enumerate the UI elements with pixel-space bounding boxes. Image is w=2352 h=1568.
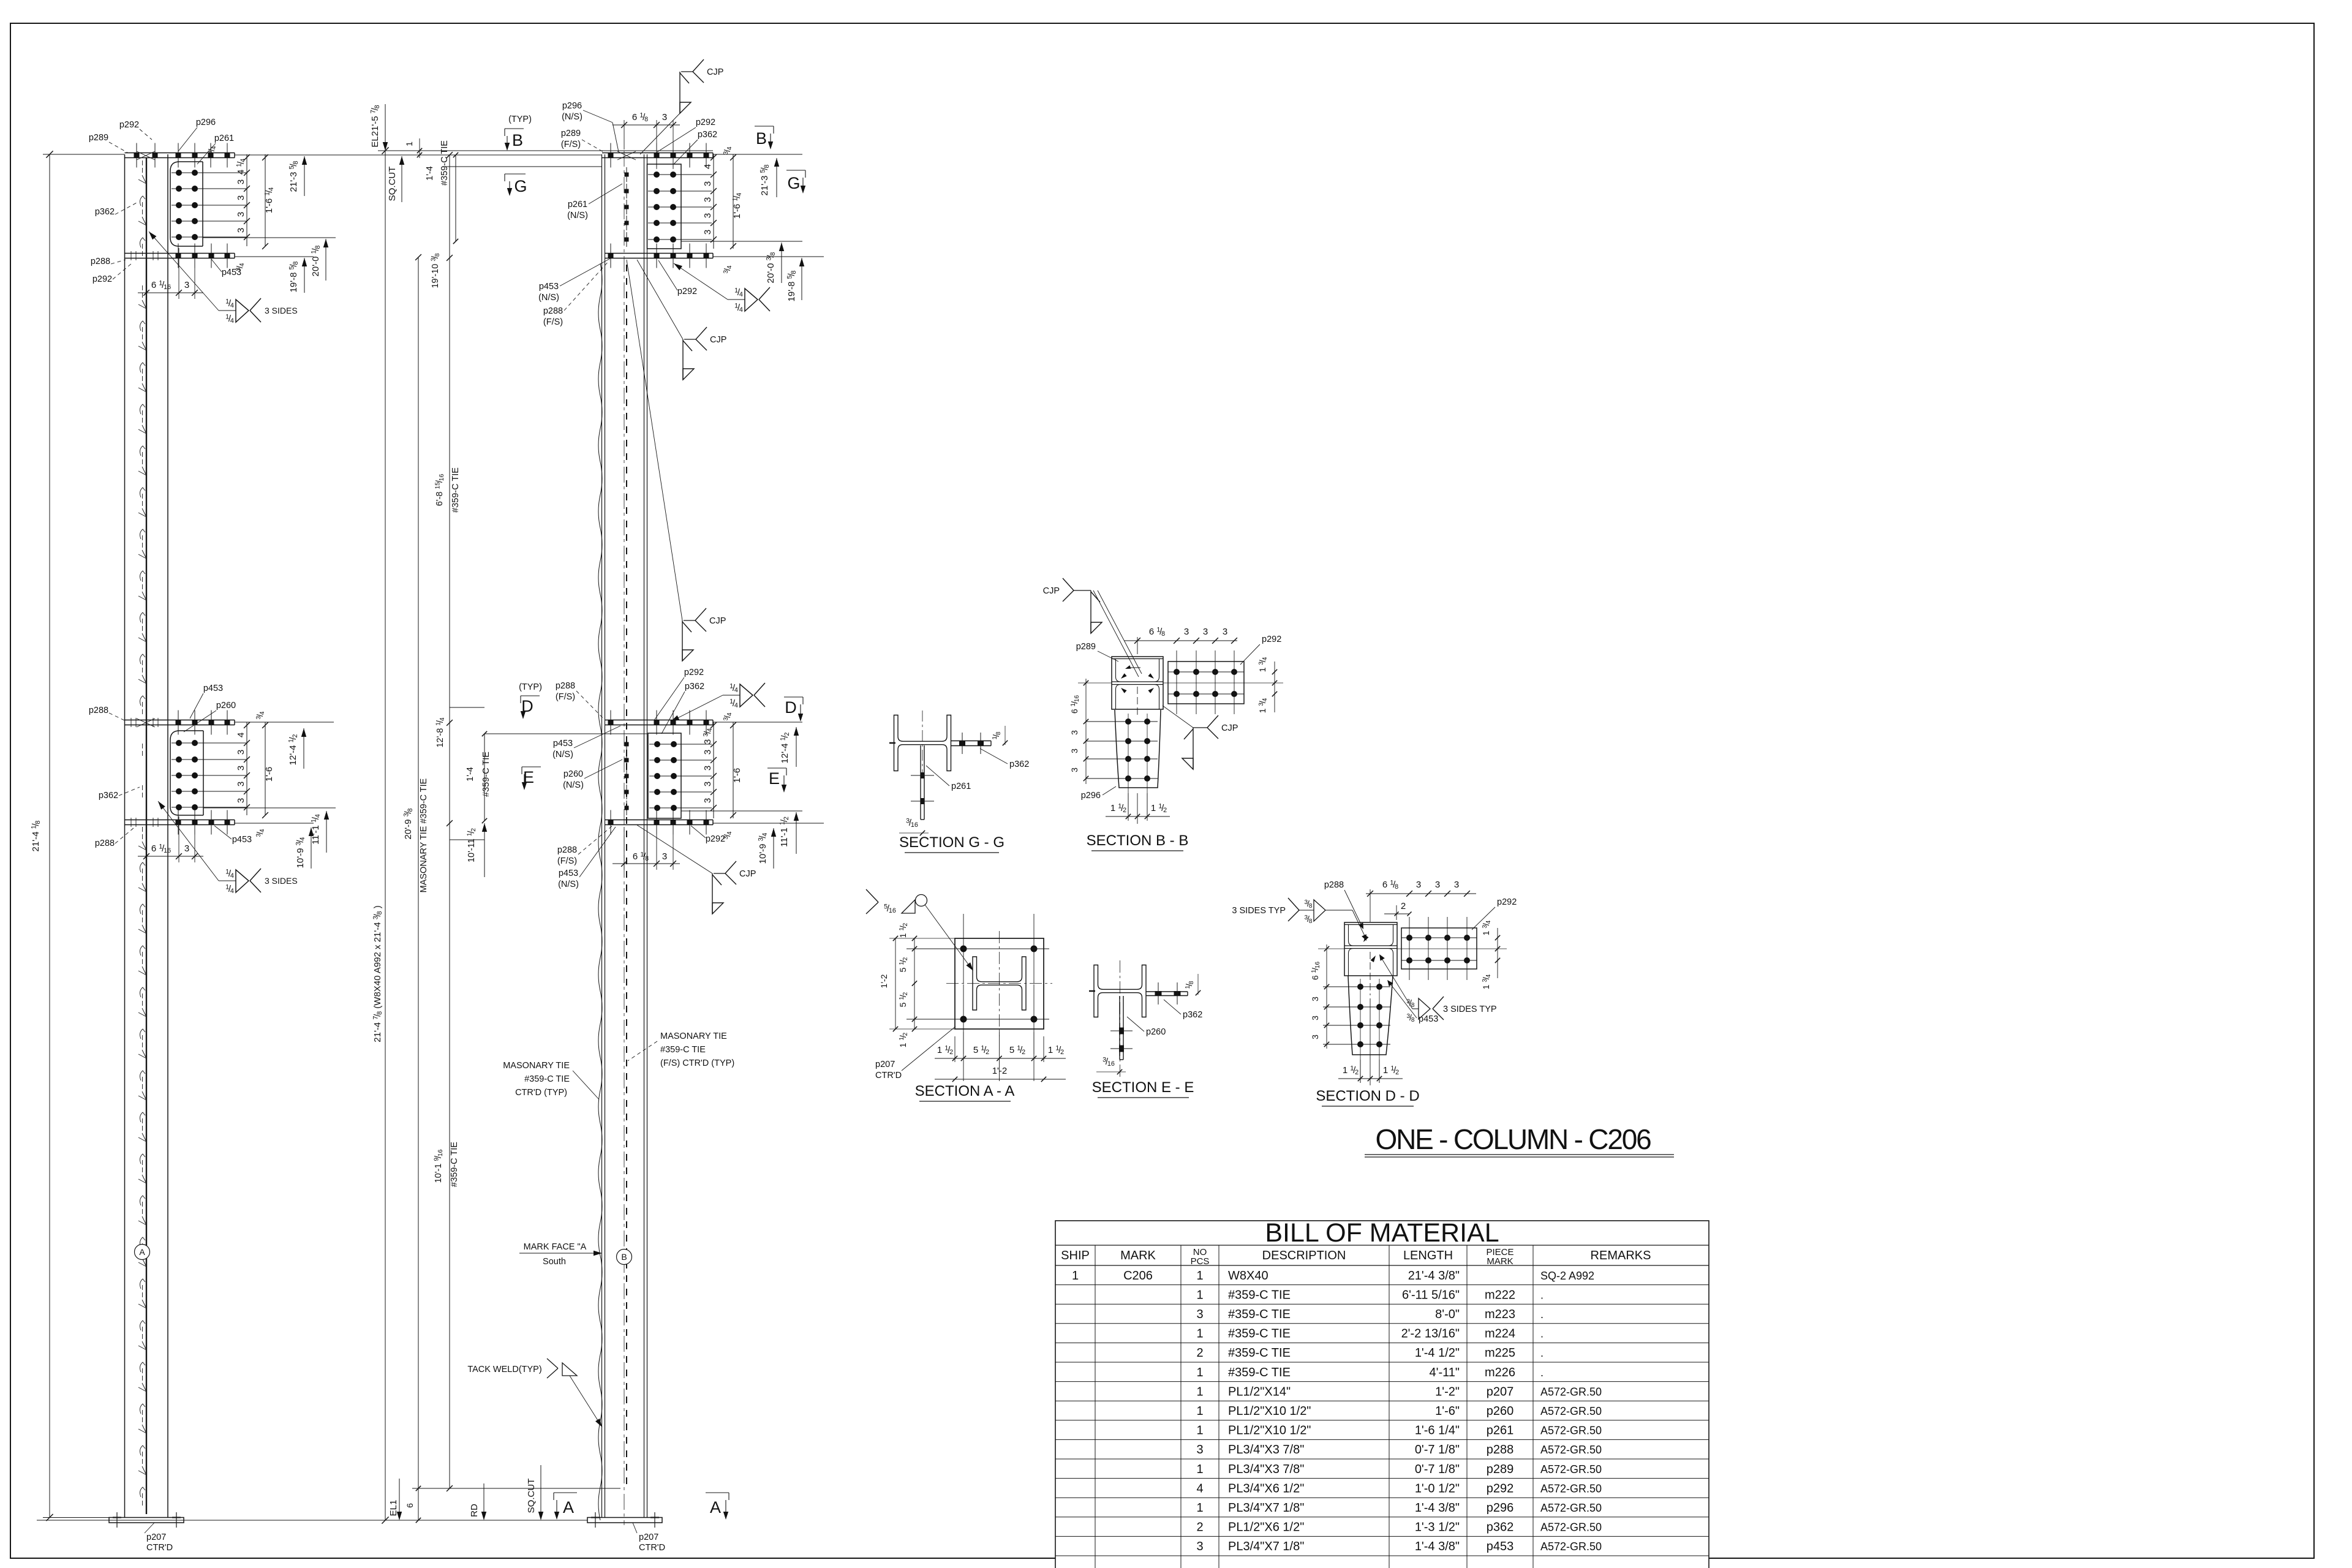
CJP callout below top conn (col B) [637, 260, 683, 339]
column A tie marks [138, 175, 146, 184]
svg-text:1'-6: 1'-6 [264, 767, 274, 782]
column A mid upper strip [125, 720, 235, 721]
svg-text:0'-7 1/8": 0'-7 1/8" [1415, 1463, 1460, 1476]
svg-text:3: 3 [236, 195, 246, 200]
svg-text:CJP: CJP [707, 67, 723, 77]
plate p260 stem (E-E) [1119, 996, 1120, 1060]
svg-text:m223: m223 [1485, 1308, 1515, 1321]
svg-text:#359-C TIE: #359-C TIE [481, 752, 491, 797]
svg-text:B: B [756, 129, 767, 148]
svg-text:12'-4 1/2: 12'-4 1/2 [780, 733, 791, 764]
tie p453 tapered (D-D) [1348, 976, 1393, 1055]
svg-text:1: 1 [1196, 1385, 1203, 1398]
sq cut line bottom [412, 1488, 620, 1489]
svg-text:2: 2 [1196, 1346, 1203, 1360]
svg-text:SECTION D - D: SECTION D - D [1316, 1088, 1419, 1104]
col B dim 21-3 5/8 [776, 158, 777, 197]
top of steel line EL21-5 7/8 [378, 150, 713, 151]
svg-text:#359-C TIE: #359-C TIE [1228, 1327, 1291, 1341]
svg-text:3 SIDES TYP: 3 SIDES TYP [1232, 906, 1286, 916]
column B lower flange strip (top conn) [605, 253, 713, 254]
dim 11-1 1/4 [326, 811, 327, 853]
svg-text:1: 1 [1196, 1404, 1203, 1418]
svg-text:1: 1 [1196, 1269, 1203, 1283]
EL1 label [399, 1479, 400, 1519]
svg-text:1'-2: 1'-2 [992, 1066, 1008, 1076]
svg-text:#359-C TIE: #359-C TIE [440, 140, 450, 186]
top connection bolt-row dim chain [246, 154, 247, 246]
section mark B right [755, 126, 774, 127]
svg-text:8'-0": 8'-0" [1435, 1308, 1460, 1321]
col B dim 1-6 1/4 [733, 154, 734, 249]
svg-text:PL3/4"X7 1/8": PL3/4"X7 1/8" [1228, 1540, 1304, 1553]
col B dim 11-1 1/2 [796, 812, 797, 854]
CJP callout col B mid-upper [627, 260, 682, 620]
section A-A bottom dims [963, 1032, 964, 1081]
svg-text:A572-GR.50: A572-GR.50 [1540, 1385, 1602, 1398]
svg-text:A572-GR.50: A572-GR.50 [1540, 1425, 1602, 1437]
weld leader (col A top conn) [149, 232, 219, 311]
col B mid ext lines [713, 722, 802, 723]
weld symbol col B top conn [674, 263, 728, 300]
p260 bolts [171, 742, 247, 744]
column A mid lower strip [125, 820, 235, 821]
svg-text:1: 1 [1196, 1288, 1203, 1302]
tie dim 10-11 1/2 (col B) [484, 823, 485, 877]
p292 bolts (D-D) [1406, 935, 1412, 941]
svg-text:p288: p288 [89, 706, 108, 715]
svg-text:19'-10 3/8: 19'-10 3/8 [431, 253, 441, 288]
svg-text:3 SIDES TYP: 3 SIDES TYP [1443, 1005, 1497, 1014]
svg-text:p207: p207 [1487, 1385, 1514, 1398]
svg-text:CJP: CJP [739, 869, 756, 879]
col B tie dim line [449, 155, 450, 1488]
svg-text:3: 3 [703, 750, 713, 755]
svg-text:SECTION E - E: SECTION E - E [1092, 1079, 1194, 1096]
col B dim 12-4 1/2 [796, 727, 797, 767]
column A cap plate strip [125, 153, 235, 154]
svg-text:D: D [785, 698, 797, 717]
svg-text:p288: p288 [95, 839, 115, 848]
bottom dims B-B [1128, 793, 1129, 821]
svg-text:3: 3 [236, 212, 246, 217]
plate p362 (section G-G) [951, 741, 991, 742]
svg-text:p207: p207 [146, 1532, 166, 1542]
svg-text:DESCRIPTION: DESCRIPTION [1262, 1249, 1346, 1262]
svg-text:19'-8 5/8: 19'-8 5/8 [288, 262, 300, 293]
svg-text:p289: p289 [561, 129, 581, 138]
bill of material table [1055, 1221, 1709, 1568]
col B dim 20-0 3/8 [781, 243, 782, 283]
dims 1 3/4 (D-D) [1497, 928, 1498, 978]
dim 6 1/8 and 3 above p362 [624, 120, 625, 149]
left dim chain (D-D) [1326, 944, 1327, 1049]
svg-text:3: 3 [703, 798, 713, 803]
svg-text:MASONARY TIE: MASONARY TIE [503, 1061, 570, 1071]
svg-text:4: 4 [1196, 1482, 1203, 1495]
svg-text:(N/S): (N/S) [552, 750, 573, 759]
dim 21-3 5/8 (col A) [304, 156, 305, 196]
svg-text:4: 4 [236, 733, 246, 737]
svg-text:CTR'D: CTR'D [639, 1543, 665, 1553]
svg-text:p288: p288 [1487, 1443, 1514, 1457]
svg-text:PL1/2"X10 1/2": PL1/2"X10 1/2" [1228, 1424, 1311, 1438]
CJP callout col B mid-lower [637, 825, 712, 873]
svg-text:3: 3 [1454, 880, 1459, 890]
svg-text:3 SIDES: 3 SIDES [265, 876, 298, 886]
svg-text:20'-0 3/8: 20'-0 3/8 [766, 252, 777, 284]
column B centerline [624, 151, 625, 1525]
svg-text:A572-GR.50: A572-GR.50 [1540, 1463, 1602, 1476]
svg-text:1'-4 3/8": 1'-4 3/8" [1415, 1540, 1460, 1553]
svg-text:3: 3 [236, 228, 246, 233]
svg-text:21'-4 7/8 (W8X40 A992 x 21'-4: 21'-4 7/8 (W8X40 A992 x 21'-4 3/8 ) [372, 905, 384, 1042]
svg-text:A572-GR.50: A572-GR.50 [1540, 1444, 1602, 1456]
svg-text:3: 3 [703, 230, 713, 235]
col B dim line 20-9 3/8 [418, 257, 419, 1520]
column B mid lower strip [605, 820, 713, 821]
p453 strip left hidden dashes [130, 251, 132, 260]
svg-text:#359-C TIE: #359-C TIE [451, 467, 461, 513]
dim 19-8 5/8 (col A) [304, 258, 305, 293]
section mark G left [505, 173, 526, 175]
svg-text:.: . [1540, 1328, 1543, 1340]
svg-text:p453: p453 [232, 835, 252, 845]
column A mark circle A [135, 1245, 150, 1260]
svg-text:3: 3 [1310, 1035, 1320, 1039]
svg-text:1: 1 [1196, 1327, 1203, 1341]
svg-text:MARK FACE "A: MARK FACE "A [524, 1242, 587, 1252]
svg-text:p292: p292 [119, 120, 139, 130]
svg-text:.: . [1540, 1366, 1543, 1379]
svg-text:p296: p296 [1487, 1501, 1514, 1515]
svg-text:C206: C206 [1123, 1269, 1153, 1283]
svg-text:3: 3 [1196, 1308, 1203, 1321]
svg-text:4: 4 [703, 164, 713, 169]
weld leader (col A mid) [158, 801, 219, 881]
svg-text:21'-4 3/8": 21'-4 3/8" [1408, 1269, 1460, 1283]
section B-B column stub [1112, 657, 1163, 709]
svg-text:A572-GR.50: A572-GR.50 [1540, 1482, 1602, 1494]
svg-text:0'-7 1/8": 0'-7 1/8" [1415, 1443, 1460, 1457]
section E-E beam [1094, 965, 1146, 1017]
svg-text:p453: p453 [222, 268, 241, 277]
mid overall dim 1-6 [265, 722, 266, 815]
plate p362 (col B mid) [648, 733, 681, 818]
svg-text:p362: p362 [99, 791, 118, 801]
svg-text:.: . [1540, 1289, 1543, 1301]
dim 6 1/16 and 3 (col A top conn) [146, 260, 147, 299]
svg-text:1: 1 [1196, 1424, 1203, 1438]
col B dim 10-9 3/4 [773, 828, 774, 869]
EL21-5 7/8 label [385, 104, 386, 149]
column A right flange line [167, 154, 168, 1518]
svg-text:3: 3 [662, 112, 667, 123]
svg-text:p362: p362 [95, 207, 115, 217]
ext lines (col A top) [235, 154, 602, 156]
svg-text:CTR'D: CTR'D [146, 1543, 173, 1553]
svg-text:B: B [621, 1252, 627, 1262]
p362 bolts (top) [648, 174, 712, 175]
svg-text:m226: m226 [1485, 1366, 1515, 1379]
svg-text:PL1/2"X10 1/2": PL1/2"X10 1/2" [1228, 1404, 1311, 1418]
svg-text:1: 1 [404, 141, 414, 146]
svg-text:2: 2 [1196, 1521, 1203, 1534]
dim 12-4 1/2 [303, 728, 304, 769]
svg-text:p288: p288 [1324, 880, 1344, 890]
svg-text:MARK: MARK [1120, 1249, 1156, 1262]
p453 strip bolts [176, 253, 181, 258]
section G-G beam [894, 715, 951, 771]
cap strip bolts [134, 153, 140, 158]
svg-text:p362: p362 [1487, 1521, 1514, 1534]
svg-text:3: 3 [1416, 880, 1421, 890]
svg-text:.: . [1540, 1308, 1543, 1321]
svg-text:MARK: MARK [1487, 1256, 1513, 1267]
p362 mid bolts [649, 744, 712, 745]
svg-text:p292: p292 [677, 287, 697, 296]
svg-text:(TYP): (TYP) [519, 682, 542, 692]
svg-text:p288: p288 [91, 257, 110, 266]
section mark A right (bottom) [706, 1492, 729, 1493]
section D-D weld arrows [1363, 935, 1369, 942]
cap strip X brace [137, 151, 155, 160]
svg-text:3: 3 [236, 766, 246, 771]
col B ext lines top [713, 154, 802, 155]
svg-text:11'-1 1/2: 11'-1 1/2 [779, 816, 791, 847]
CJP callout top (col B) [679, 72, 680, 113]
svg-text:#359-C TIE: #359-C TIE [1228, 1366, 1291, 1379]
svg-text:SECTION G - G: SECTION G - G [899, 834, 1005, 851]
svg-text:PCS: PCS [1191, 1256, 1210, 1267]
svg-text:p289: p289 [1487, 1463, 1514, 1476]
ext lines mid (col A) [235, 722, 334, 723]
bottom line EL1 [37, 1520, 587, 1521]
svg-text:p261: p261 [1487, 1424, 1514, 1438]
bottom dims D-D [1360, 1060, 1361, 1083]
svg-text:21'-4 1/8: 21'-4 1/8 [31, 821, 42, 852]
svg-text:3: 3 [703, 782, 713, 786]
svg-text:3: 3 [236, 798, 246, 803]
svg-text:CTR'D (TYP): CTR'D (TYP) [515, 1088, 567, 1098]
column B center tie dashes [626, 265, 627, 271]
svg-text:3: 3 [703, 766, 713, 771]
svg-text:#359-C TIE: #359-C TIE [1228, 1308, 1291, 1321]
svg-text:2: 2 [1401, 901, 1406, 911]
svg-text:1'-6 1/4: 1'-6 1/4 [732, 193, 744, 219]
svg-text:3: 3 [1203, 627, 1208, 637]
svg-text:PL1/2"X14": PL1/2"X14" [1228, 1385, 1291, 1398]
svg-text:1'-4 3/8": 1'-4 3/8" [1415, 1501, 1460, 1515]
plate p292 (section D-D) [1401, 928, 1477, 969]
plate p362 (E-E) [1146, 991, 1188, 992]
column B base plate p207 [587, 1518, 662, 1523]
p296 bolts (B-B) [1125, 718, 1131, 725]
svg-text:p453: p453 [1487, 1540, 1514, 1553]
svg-text:(N/S): (N/S) [562, 112, 582, 122]
svg-text:3: 3 [703, 197, 713, 202]
svg-text:CJP: CJP [1221, 723, 1238, 733]
col B dim 19-8 5/8 [801, 258, 802, 300]
svg-text:1'-4: 1'-4 [425, 166, 435, 181]
SQ.CUT label bottom [540, 1465, 541, 1519]
svg-text:4'-11": 4'-11" [1430, 1366, 1460, 1379]
col B mid dim chain [713, 722, 714, 818]
svg-text:3: 3 [236, 782, 246, 786]
svg-text:2'-2 13/16": 2'-2 13/16" [1401, 1327, 1460, 1341]
G cut line [442, 166, 602, 167]
svg-text:10'-9 3/4: 10'-9 3/4 [758, 833, 769, 864]
svg-text:p453: p453 [553, 739, 573, 748]
svg-text:19'-8 5/8: 19'-8 5/8 [786, 271, 798, 302]
svg-text:South: South [543, 1257, 566, 1267]
svg-text:3: 3 [1069, 767, 1079, 772]
weld symbol 3 sides (col A top) [219, 310, 236, 311]
label p207 CTRD (col B) [633, 1523, 637, 1533]
column A lower flange strip (p453 row) [125, 253, 235, 254]
svg-text:CJP: CJP [709, 616, 726, 626]
svg-text:p453: p453 [539, 282, 559, 292]
col B overall dim line 21-4 7/8 [385, 151, 386, 1520]
column B right flange lines [644, 154, 645, 1518]
tie p296 tapered (B-B) [1115, 710, 1161, 788]
svg-text:p260: p260 [1487, 1404, 1514, 1418]
svg-text:3: 3 [1196, 1540, 1203, 1553]
svg-text:1'-3 1/2": 1'-3 1/2" [1415, 1521, 1460, 1534]
svg-text:3: 3 [1069, 748, 1079, 753]
svg-text:p292: p292 [696, 118, 715, 127]
svg-text:p261: p261 [568, 200, 587, 209]
svg-text:B: B [512, 131, 523, 149]
svg-text:m225: m225 [1485, 1346, 1515, 1360]
svg-text:#359-C TIE: #359-C TIE [524, 1074, 570, 1084]
svg-text:1'-2: 1'-2 [879, 974, 889, 988]
svg-text:p453: p453 [203, 684, 223, 693]
col B mid dim 6 1/8 and 3 below [624, 827, 625, 870]
svg-text:MASONARY TIE #359-C TIE: MASONARY TIE #359-C TIE [419, 778, 429, 892]
svg-text:(F/S): (F/S) [561, 140, 581, 149]
section A-A anchor bolts [960, 946, 967, 952]
section A-A W shape [973, 957, 1026, 1010]
svg-text:1'-6 1/4": 1'-6 1/4" [1415, 1424, 1460, 1438]
svg-text:p453: p453 [1419, 1014, 1438, 1024]
section E-E weld dot [1089, 990, 1095, 992]
dim line above B-B [1137, 637, 1138, 654]
svg-text:m224: m224 [1485, 1327, 1515, 1341]
svg-text:SECTION B - B: SECTION B - B [1087, 832, 1189, 849]
svg-text:12'-4 1/2: 12'-4 1/2 [288, 734, 300, 766]
svg-text:12'-8 1/4: 12'-8 1/4 [435, 717, 446, 747]
column A overall dim 21-4 1/8 [49, 154, 50, 1518]
svg-text:A572-GR.50: A572-GR.50 [1540, 1540, 1602, 1553]
svg-text:p289: p289 [1076, 642, 1096, 652]
svg-text:SECTION A - A: SECTION A - A [915, 1083, 1015, 1099]
section A-A weld callout [866, 889, 878, 902]
svg-text:3: 3 [236, 179, 246, 184]
svg-text:#359-C TIE: #359-C TIE [660, 1045, 706, 1055]
column B mid upper strip [605, 720, 713, 721]
svg-text:3: 3 [703, 213, 713, 218]
svg-text:p292: p292 [706, 834, 725, 844]
section G-G weld dot left [889, 742, 895, 744]
svg-text:A572-GR.50: A572-GR.50 [1540, 1405, 1602, 1417]
section G-G centerline [922, 710, 923, 778]
svg-text:(N/S): (N/S) [563, 780, 584, 790]
svg-text:p292: p292 [92, 274, 112, 284]
tie dim labels 1-4 (top) [455, 155, 456, 241]
svg-text:(F/S) CTR'D (TYP): (F/S) CTR'D (TYP) [660, 1058, 734, 1068]
p261 bolts [171, 172, 247, 173]
svg-text:LENGTH: LENGTH [1403, 1249, 1453, 1262]
svg-text:(TYP): (TYP) [508, 115, 532, 124]
section mark A left (bottom) [554, 1492, 577, 1493]
column B mark circle B [617, 1249, 632, 1265]
column A left flange line [124, 154, 126, 1518]
svg-text:p261: p261 [951, 782, 971, 791]
svg-text:3 SIDES: 3 SIDES [265, 306, 298, 315]
svg-text:CJP: CJP [710, 335, 726, 345]
svg-text:p288: p288 [543, 306, 563, 316]
left dim chain (B-B) [1085, 679, 1087, 784]
svg-text:21'-3 5/8: 21'-3 5/8 [759, 165, 771, 196]
svg-text:p288: p288 [556, 681, 575, 691]
svg-text:3: 3 [703, 181, 713, 186]
dims 1 3/4 right (B-B) [1274, 661, 1275, 712]
svg-text:RD: RD [469, 1504, 480, 1517]
section D-D center dashes [1370, 952, 1371, 995]
column A base plate p207 [109, 1518, 184, 1523]
weld symbol col B mid [671, 695, 723, 722]
section B-B weld arrows [1121, 673, 1127, 679]
svg-text:G: G [787, 174, 800, 192]
section E-E centerline [1120, 960, 1121, 1077]
svg-text:10'-9 3/4: 10'-9 3/4 [295, 837, 307, 869]
svg-text:.: . [1540, 1347, 1543, 1359]
svg-text:3: 3 [1223, 627, 1227, 637]
dim 6 1/16 and 3 (col A mid) [146, 827, 147, 862]
svg-text:p292: p292 [684, 668, 704, 677]
svg-text:10'-11 1/2: 10'-11 1/2 [467, 828, 477, 862]
svg-text:p207: p207 [875, 1060, 895, 1069]
svg-text:p362: p362 [1009, 759, 1029, 769]
svg-text:A: A [139, 1247, 145, 1257]
svg-text:(F/S): (F/S) [557, 856, 577, 866]
svg-text:(N/S): (N/S) [567, 211, 588, 221]
cap strip bolts (col B) [608, 153, 614, 158]
weld symbol mid (col A) [219, 880, 236, 881]
plate p261 (top) [170, 162, 203, 246]
svg-text:20'-0 1/8: 20'-0 1/8 [311, 246, 322, 277]
svg-text:p362: p362 [698, 130, 717, 140]
svg-text:(F/S): (F/S) [543, 317, 563, 327]
RD label [483, 1483, 484, 1519]
svg-text:PL3/4"X6 1/2": PL3/4"X6 1/2" [1228, 1482, 1304, 1495]
svg-text:SQ-2 A992: SQ-2 A992 [1540, 1270, 1594, 1282]
column B left flange lines [601, 154, 603, 1518]
svg-text:PL1/2"X6 1/2": PL1/2"X6 1/2" [1228, 1521, 1304, 1534]
svg-text:p453: p453 [559, 869, 578, 878]
svg-text:1'-4 1/2": 1'-4 1/2" [1415, 1346, 1460, 1360]
dim line above D-D [1366, 893, 1476, 894]
svg-text:3: 3 [1310, 1016, 1320, 1020]
svg-text:1'-4: 1'-4 [466, 767, 475, 782]
svg-text:REMARKS: REMARKS [1591, 1249, 1651, 1262]
section B-B center dashes [1137, 687, 1138, 718]
svg-text:3: 3 [236, 750, 246, 755]
svg-text:11'-1 1/4: 11'-1 1/4 [311, 814, 322, 845]
svg-text:p260: p260 [563, 769, 583, 779]
svg-text:21'-3 5/8: 21'-3 5/8 [288, 161, 300, 192]
